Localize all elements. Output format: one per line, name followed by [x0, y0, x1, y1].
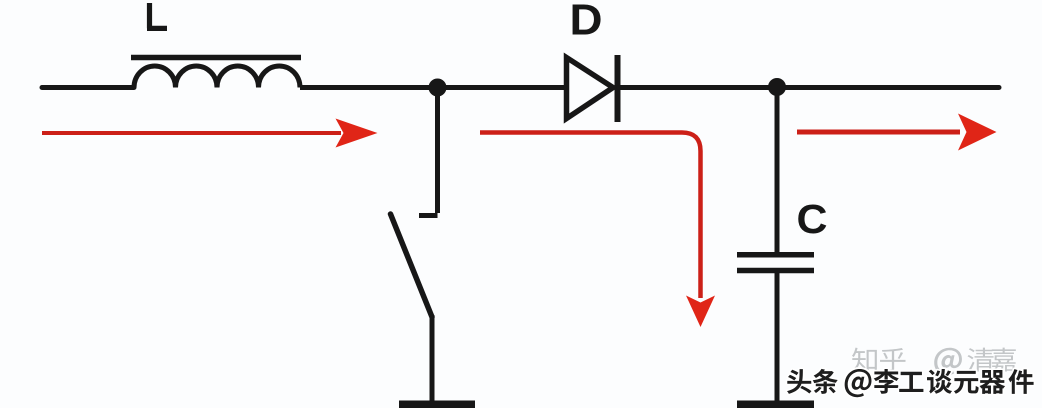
svg-text:D: D — [570, 0, 603, 44]
svg-text:C: C — [797, 196, 828, 242]
